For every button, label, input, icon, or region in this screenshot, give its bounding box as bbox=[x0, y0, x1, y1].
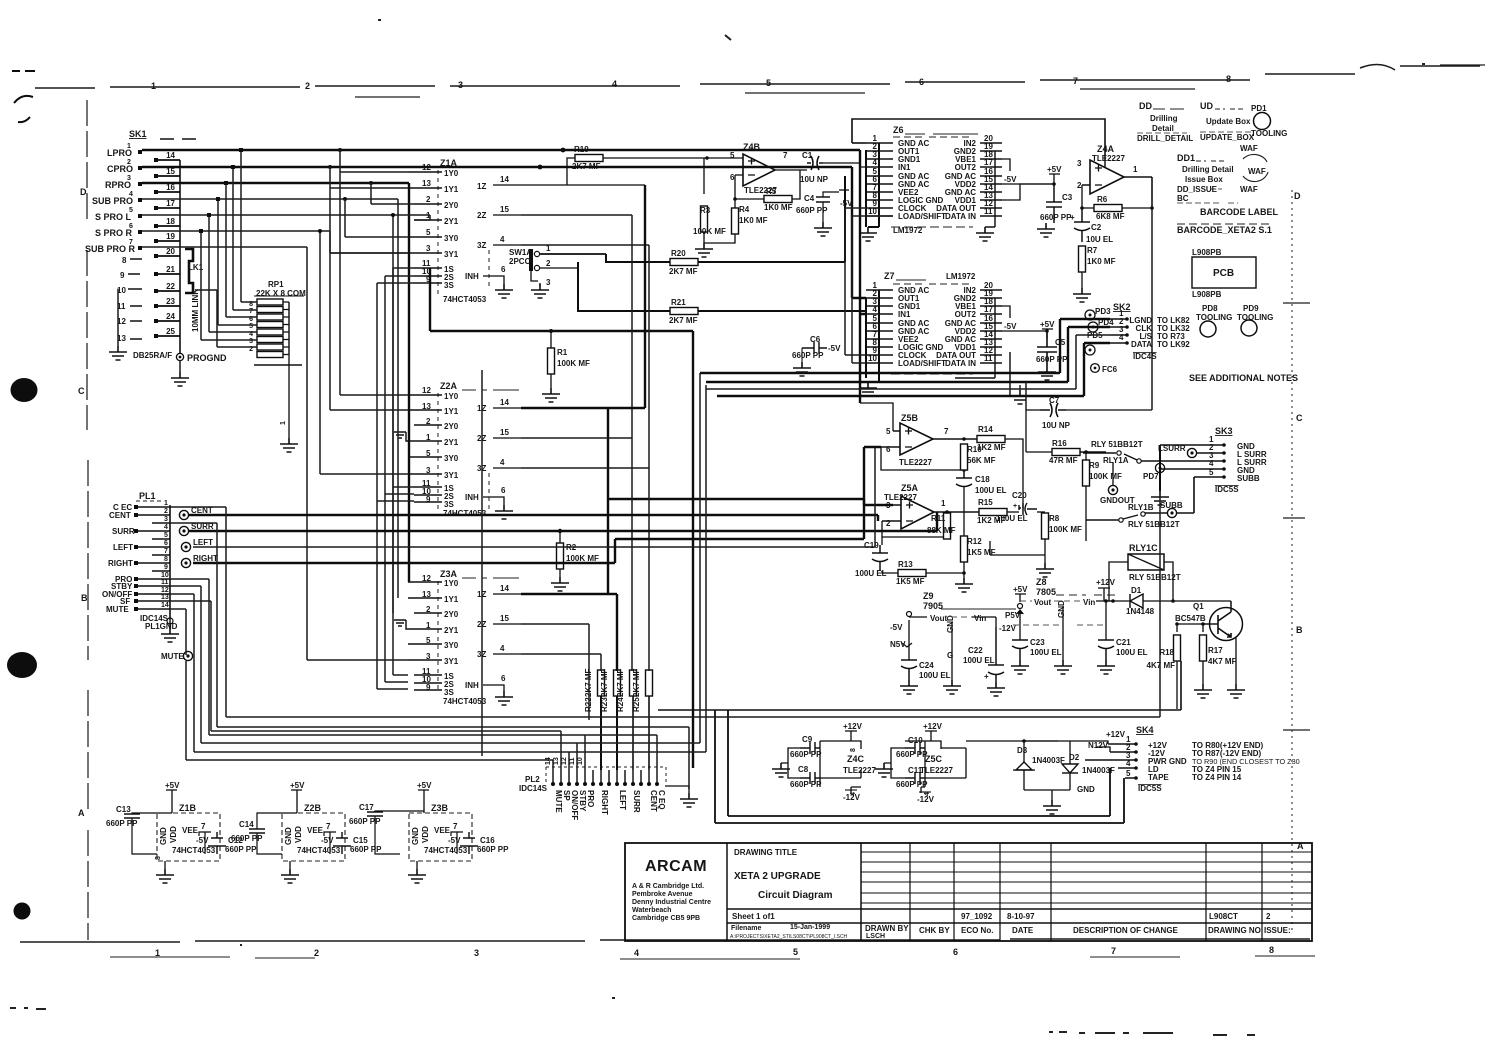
svg-text:3S: 3S bbox=[444, 688, 454, 697]
svg-text:+5V: +5V bbox=[290, 781, 305, 790]
svg-text:3: 3 bbox=[458, 80, 463, 90]
ground PROGND bbox=[179, 361, 181, 372]
svg-text:-5V: -5V bbox=[448, 836, 461, 845]
decoupling Z3B 74HCT4053 bbox=[349, 781, 509, 883]
svg-text:11: 11 bbox=[569, 757, 576, 765]
wire S PRO R run bbox=[142, 231, 408, 474]
svg-text:1: 1 bbox=[941, 499, 946, 508]
svg-text:INH: INH bbox=[465, 493, 479, 502]
svg-text:4: 4 bbox=[634, 948, 639, 958]
svg-text:5: 5 bbox=[1126, 769, 1131, 778]
svg-text:74HCT4053: 74HCT4053 bbox=[297, 846, 341, 855]
svg-text:4: 4 bbox=[164, 524, 168, 531]
svg-text:2Y1: 2Y1 bbox=[444, 438, 459, 447]
svg-text:C2: C2 bbox=[1091, 223, 1102, 232]
svg-text:ARCAM: ARCAM bbox=[645, 858, 707, 875]
wire RIGHT run bbox=[193, 447, 881, 563]
resistor R3 100K MF bbox=[693, 158, 726, 243]
wire Z6 top loop bbox=[852, 119, 1105, 160]
svg-text:3: 3 bbox=[249, 338, 253, 345]
svg-text:PROGND: PROGND bbox=[187, 353, 227, 363]
bottom border line bbox=[20, 939, 1310, 942]
svg-text:Vin: Vin bbox=[974, 614, 986, 623]
opamp supply Z4C TLE2227 bbox=[772, 722, 876, 802]
svg-text:PD9: PD9 bbox=[1243, 304, 1259, 313]
diode D3 1N4003F bbox=[966, 739, 1065, 790]
svg-text:PCB: PCB bbox=[1213, 268, 1234, 279]
svg-text:Cambridge CB5 9PB: Cambridge CB5 9PB bbox=[632, 915, 700, 922]
svg-text:1Y0: 1Y0 bbox=[444, 392, 459, 401]
svg-text:15: 15 bbox=[500, 205, 509, 214]
svg-text:+5V: +5V bbox=[417, 781, 432, 790]
svg-text:RP1: RP1 bbox=[268, 280, 284, 289]
wire Z6 Z7 data link bbox=[852, 216, 893, 363]
svg-text:DRAWING TITLE: DRAWING TITLE bbox=[734, 848, 798, 857]
svg-text:6: 6 bbox=[501, 674, 506, 683]
resistor R10 56K MF bbox=[961, 444, 996, 470]
resistor R24 2K7 MF bbox=[616, 668, 637, 770]
svg-text:8: 8 bbox=[1269, 945, 1274, 955]
wire Z output bus 3Z bbox=[521, 245, 649, 468]
svg-text:R18: R18 bbox=[1159, 648, 1174, 657]
svg-text:1Y0: 1Y0 bbox=[444, 169, 459, 178]
note drilling detail DD bbox=[1137, 101, 1193, 143]
svg-text:R4: R4 bbox=[739, 205, 750, 214]
svg-text:3Y0: 3Y0 bbox=[444, 641, 459, 650]
svg-text:R23: R23 bbox=[600, 697, 609, 712]
svg-text:R12: R12 bbox=[967, 537, 982, 546]
svg-text:IDC5S: IDC5S bbox=[1138, 784, 1162, 793]
svg-text:Z3A: Z3A bbox=[440, 569, 458, 579]
svg-text:Z5C: Z5C bbox=[925, 754, 943, 764]
pad PD7 bbox=[1143, 445, 1169, 505]
svg-text:C3: C3 bbox=[1062, 193, 1073, 202]
relay contact RLY1A bbox=[1083, 440, 1224, 465]
connector SK1 bbox=[85, 129, 227, 386]
svg-text:LEFT: LEFT bbox=[618, 790, 627, 810]
svg-text:CHK BY: CHK BY bbox=[919, 926, 950, 935]
resistor R23 2K7 MF bbox=[600, 668, 621, 770]
svg-text:C20: C20 bbox=[1012, 491, 1027, 500]
svg-text:7: 7 bbox=[201, 822, 206, 831]
svg-text:1Y0: 1Y0 bbox=[444, 579, 459, 588]
ground Z3B bbox=[416, 861, 418, 869]
svg-text:3: 3 bbox=[426, 244, 431, 253]
note update box UD bbox=[1200, 101, 1255, 142]
svg-text:4K7 MF: 4K7 MF bbox=[1147, 661, 1176, 670]
SK1 signal pin squares bbox=[138, 150, 142, 250]
svg-text:20: 20 bbox=[166, 247, 175, 256]
svg-text:C4: C4 bbox=[804, 194, 815, 203]
svg-text:BC: BC bbox=[1177, 194, 1189, 203]
svg-text:1Y1: 1Y1 bbox=[444, 595, 459, 604]
svg-text:BARCODE_XETA2 S.1: BARCODE_XETA2 S.1 bbox=[1177, 225, 1272, 235]
svg-text:5: 5 bbox=[249, 323, 253, 330]
svg-text:-12V: -12V bbox=[917, 795, 935, 804]
svg-text:SUB PRO: SUB PRO bbox=[92, 196, 133, 206]
svg-text:3Y0: 3Y0 bbox=[444, 234, 459, 243]
resistor R8 100K MF bbox=[990, 512, 1082, 577]
svg-text:56K MF: 56K MF bbox=[967, 456, 996, 465]
svg-text:7: 7 bbox=[944, 427, 949, 436]
svg-text:5: 5 bbox=[426, 228, 431, 237]
svg-text:21: 21 bbox=[166, 265, 175, 274]
svg-text:3: 3 bbox=[546, 278, 551, 287]
svg-text:DATA IN: DATA IN bbox=[945, 212, 976, 221]
resistor R22 2K7 MF bbox=[584, 668, 605, 770]
svg-text:SK3: SK3 bbox=[1215, 426, 1233, 436]
svg-text:L908CT: L908CT bbox=[1209, 912, 1238, 921]
svg-text:LEFT: LEFT bbox=[193, 538, 213, 547]
wire SUB PRO run bbox=[142, 199, 398, 598]
svg-text:660P PP: 660P PP bbox=[349, 817, 381, 826]
svg-text:10: 10 bbox=[577, 757, 584, 765]
svg-text:DATA: DATA bbox=[1131, 340, 1152, 349]
svg-text:IN1: IN1 bbox=[898, 163, 911, 172]
resistor R17 4K7 MF bbox=[1177, 622, 1237, 698]
svg-text:6K8 MF: 6K8 MF bbox=[1096, 212, 1125, 221]
svg-text:2Y0: 2Y0 bbox=[444, 610, 459, 619]
svg-text:19: 19 bbox=[166, 232, 175, 241]
svg-text:C8: C8 bbox=[798, 765, 809, 774]
svg-text:18: 18 bbox=[166, 217, 175, 226]
wire Z5A feedback via R11 bbox=[882, 521, 947, 537]
svg-text:WAF: WAF bbox=[1240, 185, 1258, 194]
svg-text:Z4A: Z4A bbox=[1097, 144, 1115, 154]
svg-text:3: 3 bbox=[164, 516, 168, 523]
svg-text:24: 24 bbox=[166, 312, 175, 321]
svg-text:SUBB: SUBB bbox=[1237, 474, 1260, 483]
svg-text:+12V: +12V bbox=[923, 722, 943, 731]
svg-text:4: 4 bbox=[500, 644, 505, 653]
svg-text:1K0 MF: 1K0 MF bbox=[764, 203, 793, 212]
svg-text:4: 4 bbox=[1209, 459, 1214, 468]
op-amp Z5A TLE2227 bbox=[882, 483, 980, 537]
svg-text:RLY1B: RLY1B bbox=[1128, 503, 1154, 512]
svg-text:GND: GND bbox=[1057, 600, 1066, 618]
svg-text:R20: R20 bbox=[671, 249, 686, 258]
regulator Z8 7805 bbox=[1005, 577, 1148, 674]
svg-text:10U NP: 10U NP bbox=[1042, 421, 1071, 430]
svg-text:LOAD/SHIFT: LOAD/SHIFT bbox=[898, 359, 946, 368]
svg-text:74HCT4053: 74HCT4053 bbox=[424, 846, 468, 855]
svg-text:DRAWN BY: DRAWN BY bbox=[865, 924, 909, 933]
svg-text:-5V: -5V bbox=[828, 344, 841, 353]
svg-text:L908PB: L908PB bbox=[1192, 248, 1222, 257]
svg-text:660P PP: 660P PP bbox=[1040, 213, 1072, 222]
svg-text:7: 7 bbox=[453, 822, 458, 831]
svg-text:C18: C18 bbox=[975, 475, 990, 484]
transistor Q1 BC547B bbox=[1173, 601, 1245, 698]
svg-text:TO LK92: TO LK92 bbox=[1157, 340, 1190, 349]
svg-text:7: 7 bbox=[1111, 946, 1116, 956]
link LK1 bbox=[185, 249, 204, 332]
svg-text:2Y0: 2Y0 bbox=[444, 422, 459, 431]
svg-text:6: 6 bbox=[953, 947, 958, 957]
svg-text:Z5A: Z5A bbox=[901, 483, 919, 493]
svg-text:1: 1 bbox=[1133, 165, 1138, 174]
pad PD8 TOOLING bbox=[1196, 304, 1232, 337]
svg-text:15: 15 bbox=[500, 428, 509, 437]
svg-text:S PRO L: S PRO L bbox=[95, 212, 132, 222]
wire Z output bus 2Z bbox=[521, 215, 632, 438]
svg-text:PRO: PRO bbox=[586, 790, 595, 807]
svg-text:2: 2 bbox=[1266, 912, 1271, 921]
volume IC Z6 LM1972 bbox=[852, 119, 1105, 241]
svg-text:PL1GND: PL1GND bbox=[145, 622, 178, 631]
relay coil RLY1C bbox=[1109, 543, 1181, 601]
svg-text:15: 15 bbox=[166, 167, 175, 176]
staircase bus row6 bbox=[170, 601, 561, 770]
svg-text:22: 22 bbox=[166, 282, 175, 291]
svg-text:FC6: FC6 bbox=[1102, 365, 1118, 374]
capacitor C21 100U EL bbox=[1098, 640, 1114, 660]
svg-text:17: 17 bbox=[166, 199, 175, 208]
capacitor C3 660P PP bbox=[1046, 184, 1062, 223]
connector SK4 IDC5S bbox=[1085, 725, 1300, 793]
resistor R4 1K0 MF bbox=[695, 199, 768, 257]
svg-text:2: 2 bbox=[546, 259, 551, 268]
svg-text:GND: GND bbox=[159, 827, 168, 845]
svg-text:Z3B: Z3B bbox=[431, 803, 449, 813]
svg-text:Filename: Filename bbox=[731, 925, 761, 932]
svg-text:L908PB: L908PB bbox=[1192, 290, 1222, 299]
connector SK3 IDC5S bbox=[1160, 426, 1267, 494]
resistor R7 1K0 MF bbox=[1073, 246, 1116, 302]
svg-text:R1: R1 bbox=[557, 348, 568, 357]
svg-text:6: 6 bbox=[730, 173, 735, 182]
svg-text:-5V: -5V bbox=[321, 836, 334, 845]
capacitor C2 10U EL bbox=[1070, 208, 1113, 244]
pad FC6 bbox=[1091, 364, 1118, 374]
svg-text:TAPE: TAPE bbox=[1148, 773, 1169, 782]
svg-text:3Y0: 3Y0 bbox=[444, 454, 459, 463]
svg-text:Circuit Diagram: Circuit Diagram bbox=[758, 890, 833, 901]
svg-text:-5V: -5V bbox=[1004, 322, 1017, 331]
svg-text:DD1: DD1 bbox=[1177, 153, 1195, 163]
svg-text:3: 3 bbox=[1077, 159, 1082, 168]
svg-text:7: 7 bbox=[326, 822, 331, 831]
svg-text:RIGHT: RIGHT bbox=[600, 790, 609, 815]
svg-text:+: + bbox=[1070, 213, 1075, 222]
svg-text:100U EL: 100U EL bbox=[996, 514, 1028, 523]
svg-text:9: 9 bbox=[120, 271, 125, 280]
svg-text:47R MF: 47R MF bbox=[1049, 456, 1078, 465]
svg-text:4: 4 bbox=[612, 79, 617, 89]
svg-text:TO Z4 PIN 14: TO Z4 PIN 14 bbox=[1192, 773, 1242, 782]
svg-text:R8: R8 bbox=[1049, 514, 1060, 523]
wire bus vertical x482 bbox=[481, 370, 483, 756]
svg-text:2K7 MF: 2K7 MF bbox=[600, 668, 609, 697]
multiplexer Z1A 74HCT4053 bbox=[408, 158, 521, 304]
wire Z1A 1Y1 feed bbox=[330, 167, 408, 410]
svg-text:D: D bbox=[1294, 191, 1301, 201]
svg-text:Detail: Detail bbox=[1152, 124, 1174, 133]
svg-text:S PRO R: S PRO R bbox=[95, 228, 133, 238]
svg-text:C15: C15 bbox=[353, 836, 368, 845]
svg-text:8: 8 bbox=[164, 556, 168, 563]
svg-text:SW1A: SW1A bbox=[509, 248, 532, 257]
svg-text:PD1: PD1 bbox=[1251, 104, 1267, 113]
wire Z6 right pins bus bbox=[985, 143, 995, 227]
svg-text:23: 23 bbox=[166, 297, 175, 306]
svg-text:8-10-97: 8-10-97 bbox=[1007, 912, 1035, 921]
svg-text:R9: R9 bbox=[1089, 461, 1100, 470]
svg-text:R25: R25 bbox=[632, 697, 641, 712]
svg-text:2: 2 bbox=[164, 508, 168, 515]
wire SK1 pin bus to PROGND bbox=[179, 160, 181, 353]
svg-text:IDC14S: IDC14S bbox=[519, 784, 548, 793]
svg-text:GND: GND bbox=[1077, 785, 1095, 794]
wire S-select bus 3S bbox=[377, 283, 414, 689]
testpoint RIGHT bbox=[181, 554, 218, 568]
capacitor C20 100U EL bbox=[996, 491, 1037, 523]
svg-text:TLE2227: TLE2227 bbox=[899, 458, 932, 467]
svg-text:+5V: +5V bbox=[1047, 165, 1062, 174]
svg-text:R5: R5 bbox=[766, 187, 777, 196]
svg-text:MUTE: MUTE bbox=[161, 652, 184, 661]
scan blob left 3 bbox=[14, 903, 31, 920]
svg-text:WAF: WAF bbox=[1240, 144, 1258, 153]
svg-text:Z2A: Z2A bbox=[440, 381, 458, 391]
wire Z1A 1Y0 feed bbox=[340, 150, 408, 395]
ground D2 D3 bbox=[1024, 785, 1095, 814]
svg-text:660P PP: 660P PP bbox=[231, 834, 263, 843]
svg-text:3Z: 3Z bbox=[477, 241, 486, 250]
op-amp Z5B TLE2227 bbox=[860, 403, 977, 472]
wire Z3A 1Z to R22 bbox=[521, 594, 617, 671]
ground Z2A 3Y0 bbox=[394, 432, 414, 441]
svg-text:100K MF: 100K MF bbox=[566, 554, 599, 563]
wire CPRO run bbox=[142, 167, 866, 298]
svg-text:74HCT4053: 74HCT4053 bbox=[172, 846, 216, 855]
svg-text:STBY: STBY bbox=[578, 790, 587, 812]
svg-text:C24: C24 bbox=[919, 661, 934, 670]
svg-text:3: 3 bbox=[127, 175, 131, 182]
svg-text:RLY 51BB12T: RLY 51BB12T bbox=[1128, 520, 1180, 529]
svg-text:1K0 MF: 1K0 MF bbox=[1087, 257, 1116, 266]
testpoint MUTE bbox=[161, 651, 193, 661]
testpoint LSURR bbox=[1158, 444, 1224, 458]
svg-text:A & R Cambridge Ltd.: A & R Cambridge Ltd. bbox=[632, 883, 704, 890]
svg-text:-5V: -5V bbox=[1004, 175, 1017, 184]
svg-text:1: 1 bbox=[151, 81, 156, 91]
resistor R20 2K7 MF bbox=[606, 176, 845, 276]
svg-text:R11: R11 bbox=[931, 514, 946, 523]
svg-text:8: 8 bbox=[155, 856, 162, 860]
svg-text:+: + bbox=[1013, 503, 1017, 510]
svg-text:Denny Industrial Centre: Denny Industrial Centre bbox=[632, 899, 711, 906]
svg-text:2: 2 bbox=[305, 81, 310, 91]
wire SURR run to amp bbox=[189, 512, 937, 531]
svg-text:BARCODE LABEL: BARCODE LABEL bbox=[1200, 207, 1279, 217]
svg-text:660P PP: 660P PP bbox=[790, 780, 822, 789]
decoupling Z2B 74HCT4053 bbox=[231, 781, 382, 883]
top border line bbox=[35, 64, 1480, 88]
svg-text:8: 8 bbox=[122, 256, 127, 265]
testpoint GNDOUT bbox=[1100, 462, 1135, 505]
svg-text:VEE: VEE bbox=[307, 826, 324, 835]
svg-text:R13: R13 bbox=[898, 560, 913, 569]
svg-text:5: 5 bbox=[793, 947, 798, 957]
wire Z5B feedback bbox=[860, 403, 964, 470]
svg-text:2: 2 bbox=[314, 948, 319, 958]
wire VDD1 to +5V bbox=[1002, 184, 1054, 200]
svg-text:6: 6 bbox=[501, 265, 506, 274]
outline PCB L908PB bbox=[1192, 248, 1256, 299]
svg-text:INH: INH bbox=[465, 272, 479, 281]
svg-text:100U EL: 100U EL bbox=[963, 656, 995, 665]
svg-text:3S: 3S bbox=[444, 281, 454, 290]
svg-text:LM1972: LM1972 bbox=[946, 272, 976, 281]
svg-text:OUT2: OUT2 bbox=[955, 310, 977, 319]
connector PL2 IDC14S bbox=[519, 757, 698, 820]
ground Z3A 3Y0 bbox=[394, 620, 414, 629]
svg-text:16: 16 bbox=[166, 183, 175, 192]
ground INH Z3A bbox=[495, 691, 513, 705]
wire S-select bus 1S bbox=[393, 268, 414, 675]
svg-text:1: 1 bbox=[155, 948, 160, 958]
svg-text:+5V: +5V bbox=[165, 781, 180, 790]
svg-text:+12V: +12V bbox=[843, 722, 863, 731]
scan blob left 1 bbox=[11, 378, 38, 402]
svg-text:Z8: Z8 bbox=[1036, 577, 1047, 587]
svg-text:B: B bbox=[1296, 625, 1303, 635]
SK1 pin 14-25 stub column bbox=[154, 151, 180, 353]
svg-text:3Y1: 3Y1 bbox=[444, 657, 459, 666]
resistor R16 47R MF bbox=[1049, 439, 1106, 465]
svg-text:RIGHT: RIGHT bbox=[108, 559, 133, 568]
svg-text:R24: R24 bbox=[616, 697, 625, 712]
svg-text:Z7: Z7 bbox=[884, 271, 895, 281]
svg-text:C19: C19 bbox=[864, 541, 879, 550]
svg-text:660P PP: 660P PP bbox=[106, 819, 138, 828]
wire CENT run to amp bbox=[189, 515, 878, 521]
svg-text:660P PP: 660P PP bbox=[792, 351, 824, 360]
wire RP1 common to ground bbox=[288, 355, 290, 438]
svg-text:Z9: Z9 bbox=[923, 591, 934, 601]
wire Z output bus 1Z bbox=[521, 185, 893, 594]
wire Z7 control rows to SK2 bbox=[700, 319, 1110, 373]
staircase bus row3 bbox=[170, 579, 657, 770]
svg-text:7: 7 bbox=[783, 151, 788, 160]
wire Z3A 3Z to R24 bbox=[521, 654, 601, 671]
svg-text:N12V: N12V bbox=[1088, 741, 1109, 750]
left border line bbox=[87, 100, 88, 940]
svg-text:12: 12 bbox=[161, 587, 169, 594]
svg-text:100K MF: 100K MF bbox=[1089, 472, 1122, 481]
svg-text:INH: INH bbox=[465, 681, 479, 690]
svg-text:+5V: +5V bbox=[1013, 585, 1028, 594]
decoupling Z1B 74HCT4053 bbox=[6, 0, 257, 883]
svg-text:VDD: VDD bbox=[169, 826, 178, 843]
svg-text:R7: R7 bbox=[1087, 246, 1098, 255]
svg-text:14: 14 bbox=[500, 584, 509, 593]
resistor R12 1K5 MF bbox=[955, 536, 996, 592]
svg-text:PD7: PD7 bbox=[1143, 472, 1159, 481]
svg-text:TLE2227: TLE2227 bbox=[1092, 154, 1125, 163]
svg-text:R6: R6 bbox=[1097, 195, 1108, 204]
svg-text:DB25RA/F: DB25RA/F bbox=[133, 351, 172, 360]
svg-text:11: 11 bbox=[161, 579, 169, 586]
svg-text:8: 8 bbox=[1226, 74, 1231, 84]
svg-text:SP: SP bbox=[562, 790, 571, 801]
svg-text:1: 1 bbox=[164, 500, 168, 507]
staircase bus row5 bbox=[170, 385, 706, 770]
regulator Z9 7905 bbox=[890, 591, 1017, 696]
note drilling detail issue box DD1 bbox=[1177, 153, 1238, 203]
wire S PRO L run bbox=[142, 215, 430, 613]
